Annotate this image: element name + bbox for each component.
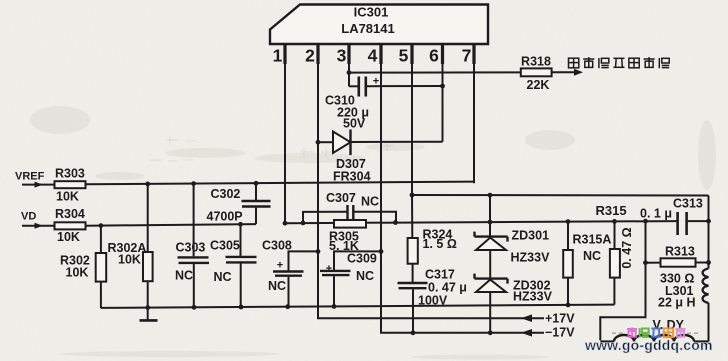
svg-text:5: 5 (399, 46, 409, 66)
svg-text:C303: C303 (176, 241, 206, 255)
junction rail-C305 (239, 305, 244, 310)
junction main-C307 left (301, 221, 306, 226)
wire C305 bottom plate to ground rail (240, 264, 242, 308)
junction nodeline-ZD301 (488, 193, 493, 198)
wire pin5 node down to R324 (411, 195, 413, 238)
wire right rail top (nodeline corner down to L301) (708, 196, 710, 269)
wire R302A bottom to ground rail (147, 281, 149, 307)
svg-text:C302: C302 (211, 187, 241, 201)
wire VREF input lead (22, 184, 55, 186)
arrow VD (35, 223, 44, 229)
wire pin3 (IC pin3 down to C310) (348, 44, 350, 86)
svg-text:0. 47 Ω: 0. 47 Ω (620, 227, 634, 268)
arrow VREF (35, 182, 44, 188)
arrow -17V (521, 329, 532, 337)
wire VREF rail to C302 top plate (255, 183, 257, 200)
svg-text:10K: 10K (57, 230, 80, 244)
junction rail-R302A-ground (145, 305, 150, 310)
wire D307 cathode to pin6 (351, 141, 443, 143)
junction pin2-D307 (316, 140, 321, 145)
svg-text:−17V: −17V (545, 326, 575, 340)
junction C309-pin4 (379, 249, 384, 254)
wire pin5 (IC pin5 down to node line y195) (411, 44, 413, 195)
diode D307 (333, 132, 351, 154)
junction C310-pin6 (440, 84, 445, 89)
wire C313branch down-elbow to yoke left (600, 263, 645, 341)
wire pin2 (IC pin2 down to +17V elbow) (318, 44, 544, 318)
wire pin4 (IC pin4 down to -17V elbow) (381, 44, 544, 333)
wire main line to R315A top (567, 222, 569, 250)
svg-text:NC: NC (583, 249, 601, 263)
svg-text:VREF: VREF (15, 171, 45, 183)
junction pin5-R324-nodeline (410, 193, 415, 198)
faint scan smudges (30, 106, 716, 360)
svg-text:C313: C313 (673, 197, 703, 211)
wire C303 bottom plate to ground rail (193, 264, 195, 307)
junction C313-right rail (706, 219, 711, 224)
wire R302 bottom to ground rail (100, 282, 102, 309)
wire C308 top lead to pin2 (289, 251, 319, 270)
wire R313 right lead to right rail (696, 262, 709, 264)
resistor R315 (610, 249, 620, 278)
svg-text:VD: VD (21, 211, 36, 223)
svg-text:C309: C309 (347, 252, 377, 266)
svg-text:10K: 10K (56, 190, 79, 204)
junction R313 left (643, 260, 648, 265)
capacitor C303 plates (178, 256, 209, 258)
ground (147, 308, 149, 321)
faint ghost glyph smudges (150, 136, 395, 161)
capacitor C308 plates (273, 270, 304, 272)
capacitor C310 plates (357, 77, 360, 97)
junction rail-C309 (332, 304, 337, 309)
wire C309 bottom plate to ground rail (333, 276, 335, 306)
junction rail-C302 (254, 181, 259, 186)
arrow +17V (521, 314, 532, 322)
svg-text:R315A: R315A (573, 233, 612, 247)
svg-text:22 μ H: 22 μ H (658, 296, 696, 310)
svg-text:NC: NC (214, 270, 232, 284)
svg-text:C305: C305 (210, 238, 240, 252)
svg-text:NC: NC (361, 195, 379, 209)
junction pin3-R318 line (347, 70, 352, 75)
wire C307 branch right elbow (353, 212, 396, 223)
resistor R302 (96, 253, 107, 282)
op-amp/IC U IC301 LA78141 outline (270, 5, 488, 45)
junction VD-R302 (99, 223, 104, 228)
wire VD input lead (22, 225, 55, 227)
junction rail-C308 (285, 304, 290, 309)
pin stub 5 (410, 44, 413, 64)
svg-text:+17V: +17V (545, 311, 575, 325)
wire pin7 (IC pin7 down to VREF rail) (473, 44, 475, 183)
svg-text:2: 2 (305, 46, 315, 66)
svg-text:C308: C308 (262, 239, 292, 253)
wire VD rail (R304 to C302 bottom) (86, 224, 257, 226)
capacitor C313 plates (676, 212, 679, 235)
wire ZD302 anode to -17V line (489, 292, 491, 333)
svg-text:100V: 100V (418, 294, 448, 308)
junction C317--17V (411, 330, 416, 335)
svg-text:IC301: IC301 (354, 5, 389, 20)
capacitor C309 plates (320, 270, 351, 272)
wire R313 left lead (646, 262, 661, 264)
wire pin6 (IC pin6 down to D307 cathode line) (442, 44, 444, 142)
svg-text:R303: R303 (55, 166, 85, 180)
svg-text:+: + (326, 263, 332, 275)
svg-text:50V: 50V (343, 117, 366, 131)
pin stub 6 (441, 44, 444, 64)
wire VD rail to R302 top (100, 226, 102, 253)
wire C307 branch left elbow (303, 212, 347, 223)
wire nodeline down to ZD301 cathode (489, 195, 491, 237)
wire main line pin1 end to C313 (285, 221, 677, 223)
capacitor C302 plates (242, 200, 271, 202)
wire VREF rail to R302A top (147, 184, 149, 252)
zener diode ZD301 (475, 235, 508, 237)
wire C317 bottom plate to -17V line (412, 289, 414, 333)
svg-text:10K: 10K (66, 265, 89, 279)
svg-text:1: 1 (273, 46, 283, 66)
svg-text:4700P: 4700P (207, 210, 243, 224)
zener diode ZD302 (475, 277, 508, 279)
wire C310 right plate to pin6 (366, 85, 443, 87)
wire R318 to output arrow (552, 71, 575, 73)
wire R324 bottom to C317 top plate (412, 264, 414, 282)
svg-text:NC: NC (175, 268, 193, 282)
wire pin2 to D307 anode (318, 141, 333, 143)
capacitor C307 plates (346, 205, 348, 219)
capacitor C305 plates (226, 256, 257, 258)
svg-text:C307: C307 (326, 191, 356, 205)
wire pin1 (IC pin1 down to R305 net left end) (284, 44, 286, 223)
junction main-R315A (566, 219, 571, 224)
svg-text:C317: C317 (425, 268, 455, 282)
junction main-R315 (612, 219, 617, 224)
junction VD-C305 (238, 222, 243, 227)
wire VD rail to C305 top plate (240, 224, 242, 256)
wire R315A bottom to ground rail (567, 278, 569, 305)
svg-text:LA78141: LA78141 (341, 21, 394, 36)
wire pin3 to R318 (349, 71, 521, 73)
junction main-C313branch (643, 219, 648, 224)
watermark site name chars (612, 327, 700, 337)
arrow output (574, 69, 583, 76)
wire C308 bottom plate to ground rail (288, 277, 290, 307)
pin stub 7 (472, 44, 475, 64)
svg-text:HZ33V: HZ33V (513, 290, 553, 304)
svg-text:R315: R315 (596, 203, 627, 218)
svg-text:6: 6 (429, 46, 439, 66)
wire main line to R315 top (614, 221, 616, 249)
svg-text:1. 5 Ω: 1. 5 Ω (423, 237, 457, 251)
svg-text:HZ33V: HZ33V (511, 251, 551, 265)
junction rail-R315A (566, 303, 571, 308)
wire C313 right plate to right rail (687, 220, 709, 222)
junction ZD302--17V (488, 330, 493, 335)
resistor R324 (408, 238, 418, 264)
svg-text:10K: 10K (118, 253, 141, 267)
resistor R305 (334, 220, 366, 228)
deflection yoke V.DY coil (600, 340, 614, 342)
junction rail-C303 (191, 181, 196, 186)
wire node line pin5 to right rail (412, 194, 709, 197)
wire C313 branch junction down to R313 (645, 221, 647, 263)
resistor R313 (661, 258, 696, 266)
inductor L301 coil (703, 269, 709, 303)
svg-text:7: 7 (462, 46, 472, 66)
output signal Chinese label (field blanking signal output) (569, 57, 670, 68)
wire C309 top lead to pin4 (334, 251, 381, 270)
resistor R302A (143, 252, 153, 281)
pin stub 3 (347, 44, 350, 64)
resistor R303 (55, 181, 86, 188)
svg-text:3: 3 (337, 46, 347, 66)
svg-text:0. 1 μ: 0. 1 μ (640, 207, 672, 221)
wire right rail bottom (L301 to yoke) (708, 303, 710, 342)
svg-text:R318: R318 (521, 55, 551, 69)
pin stub 1 (283, 44, 286, 64)
wire pin3 to C310 left plate (349, 85, 358, 87)
svg-text:NC: NC (356, 269, 374, 283)
resistor R315A (563, 250, 573, 278)
svg-text:R304: R304 (55, 207, 85, 221)
junction R313-right rail (706, 260, 711, 265)
junction C308-pin2 (316, 249, 321, 254)
svg-text:NC: NC (268, 279, 286, 293)
capacitor C317 plates (398, 282, 428, 284)
pin stub 4 (379, 44, 382, 64)
svg-text:0. 47 μ: 0. 47 μ (428, 281, 467, 295)
resistor R318 (521, 68, 552, 76)
svg-text:ZD301: ZD301 (512, 229, 550, 243)
svg-text:4: 4 (368, 46, 378, 66)
wire ground rail (101, 305, 615, 308)
junction rail-R302A (145, 182, 150, 187)
junction main-C307 right (393, 220, 398, 225)
svg-text:R313: R313 (665, 245, 695, 259)
wire C302 bottom plate to VD rail end (255, 208, 257, 225)
junction main-ZD301 (488, 220, 493, 225)
svg-text:www.go-gddq.com: www.go-gddq.com (584, 337, 713, 353)
wire VREF rail (R303 to pin7) (86, 182, 475, 185)
junction rail-C303 (192, 305, 197, 310)
wire R315 bottom to ground rail end (613, 278, 615, 305)
resistor R304 (55, 222, 86, 229)
svg-text:22K: 22K (527, 78, 550, 92)
wire ZD301 anode to ZD302 cathode (489, 250, 491, 279)
svg-text:+: + (277, 260, 283, 272)
pin stub 2 (316, 44, 319, 64)
wire VREF rail to C303 top plate (193, 184, 195, 257)
junction main-left-end (283, 221, 288, 226)
